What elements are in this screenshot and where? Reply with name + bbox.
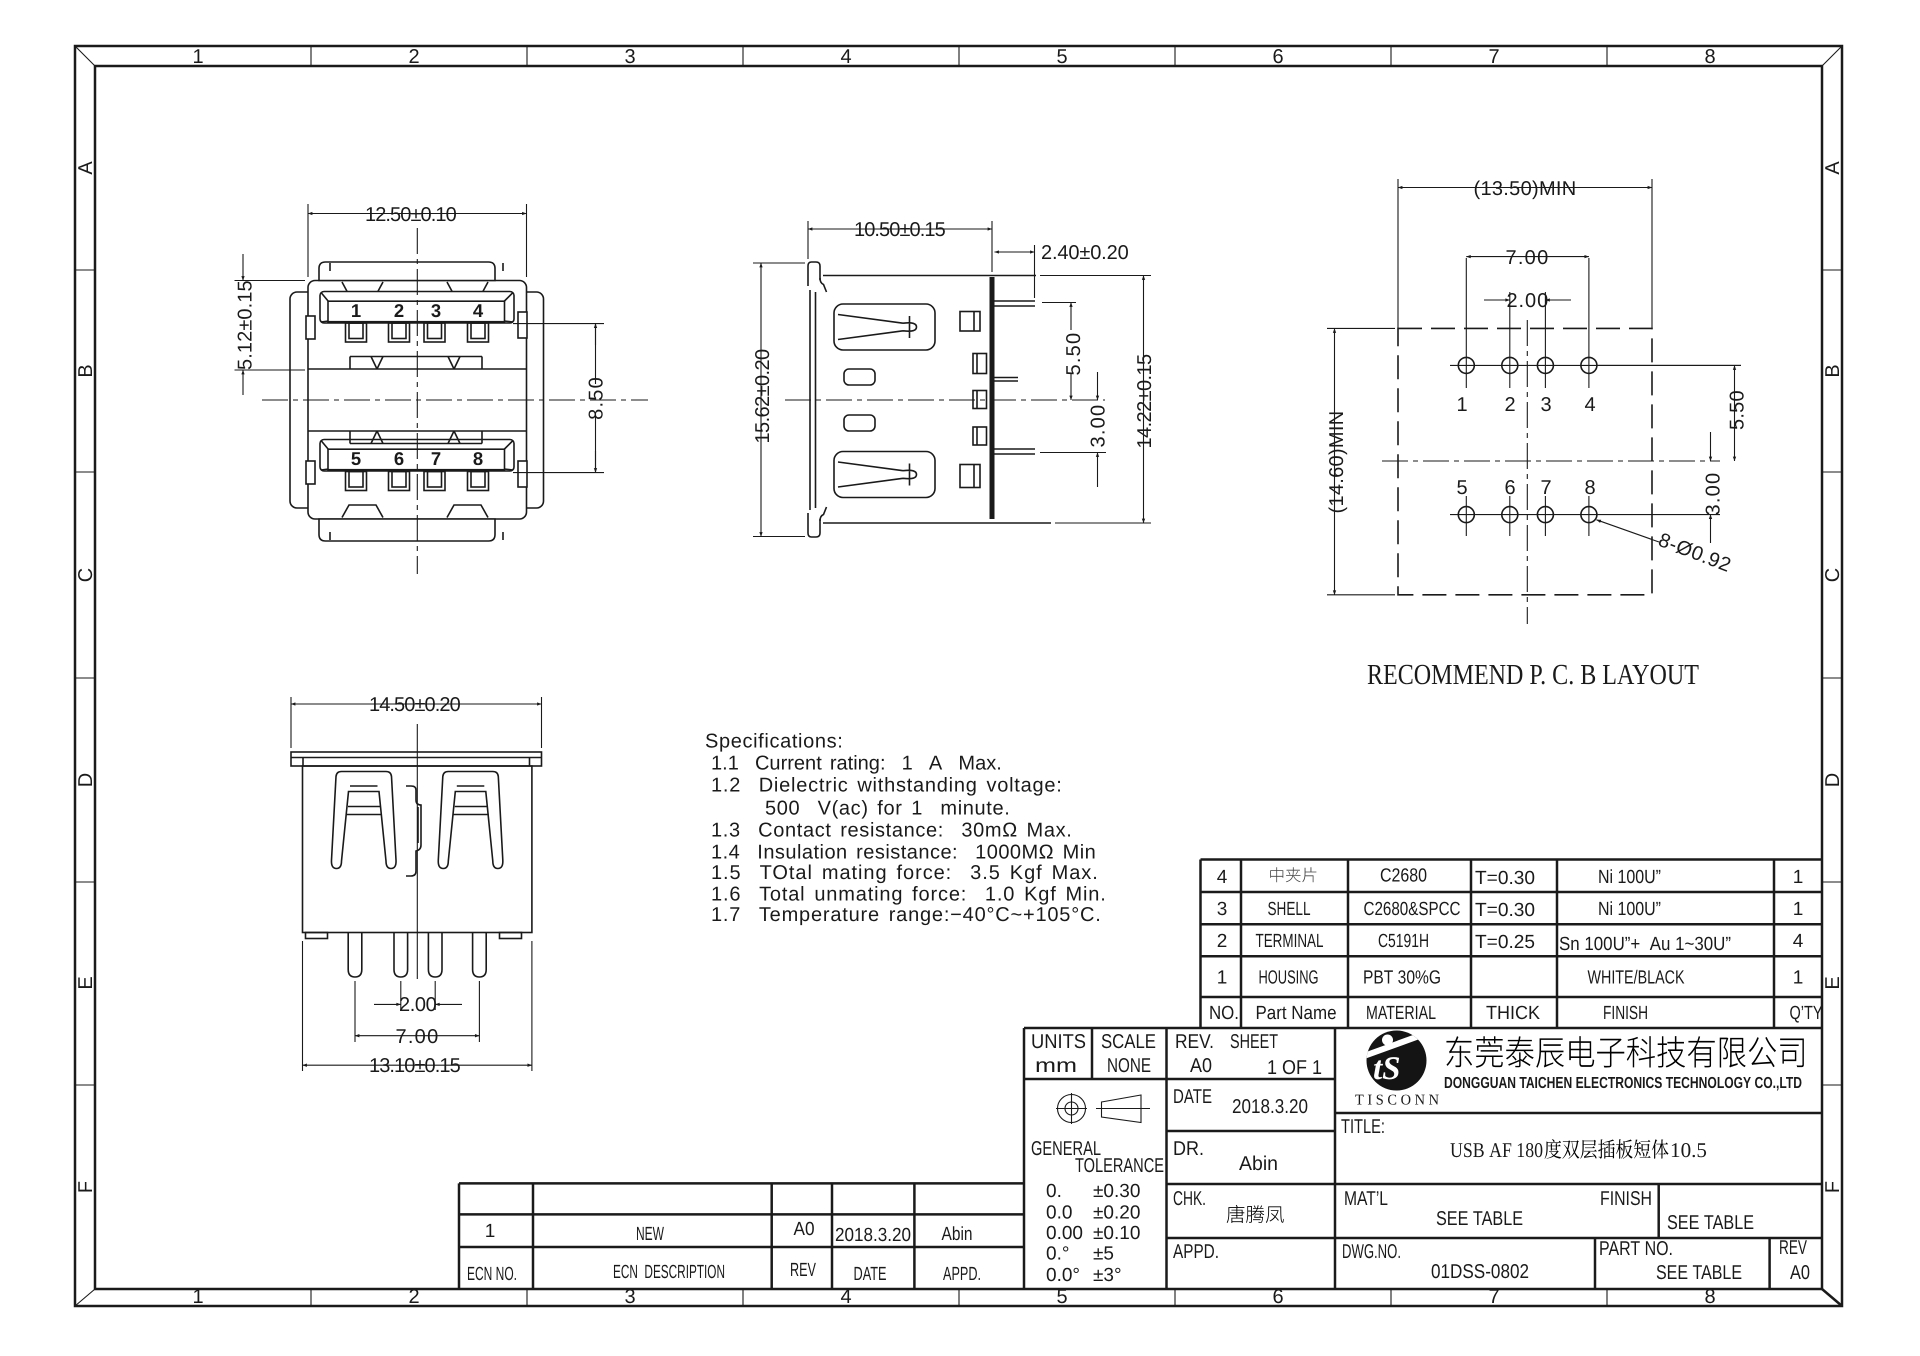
svg-text:14.22±0.15: 14.22±0.15: [1134, 354, 1156, 449]
svg-text:6: 6: [394, 448, 404, 469]
svg-text:3.00: 3.00: [1703, 473, 1725, 516]
svg-text:C: C: [75, 568, 97, 582]
svg-text:A0: A0: [794, 1219, 815, 1240]
svg-text:MAT’L: MAT’L: [1344, 1188, 1388, 1210]
svg-text:UNITS: UNITS: [1031, 1031, 1086, 1053]
PCB mount face thick bar: [990, 277, 995, 519]
svg-text:2: 2: [1217, 931, 1228, 952]
middle pin stub: [995, 378, 1019, 382]
svg-text:PBT 30%G: PBT 30%G: [1363, 968, 1441, 989]
dim 7.00: [355, 981, 479, 1048]
svg-text:7.00: 7.00: [1506, 247, 1549, 269]
svg-text:5.50: 5.50: [1063, 333, 1085, 376]
svg-text:B: B: [75, 364, 97, 377]
shell latch tabs left/right: [306, 316, 315, 339]
svg-text:THICK: THICK: [1486, 1003, 1540, 1024]
top-left lid tab: [808, 262, 820, 286]
svg-text:FINISH: FINISH: [1603, 1003, 1648, 1024]
lower tongue bar pins 5-8: [320, 440, 514, 472]
dim 2.00: [374, 981, 462, 1016]
svg-text:1: 1: [1456, 394, 1467, 416]
svg-text:REV.: REV.: [1175, 1031, 1214, 1053]
general tolerance block: [1031, 1138, 1164, 1177]
svg-text:REV: REV: [790, 1260, 816, 1281]
svg-text:DONGGUAN TAICHEN ELECTRONICS T: DONGGUAN TAICHEN ELECTRONICS TECHNOLOGY …: [1444, 1075, 1802, 1092]
svg-text:2: 2: [394, 300, 404, 321]
svg-text:0.: 0.: [1046, 1181, 1062, 1202]
svg-text:4: 4: [1217, 867, 1228, 888]
mounting feet: [306, 933, 328, 939]
svg-text:C: C: [1822, 568, 1844, 582]
bottom-left lid tab: [808, 513, 820, 537]
dim 3.00: [1703, 432, 1725, 543]
svg-text:Abin: Abin: [1239, 1153, 1278, 1175]
svg-text:D: D: [75, 773, 97, 787]
center axis: [416, 724, 418, 979]
body: [303, 766, 532, 933]
PCB outline dashed rect: [1398, 328, 1652, 594]
housing outline behind shell: [290, 292, 544, 508]
svg-text:tS: tS: [1373, 1051, 1401, 1087]
svg-text:USB AF 180: USB AF 180: [1450, 1138, 1543, 1162]
svg-text:Part Name: Part Name: [1256, 1003, 1337, 1024]
svg-text:C2680&SPCC: C2680&SPCC: [1364, 899, 1461, 920]
hole circles row2: [1458, 507, 1474, 523]
dim 13.10±0.15: [303, 941, 532, 1077]
svg-text:A: A: [75, 161, 97, 175]
svg-text:12.50±0.10: 12.50±0.10: [365, 204, 457, 226]
svg-text:3: 3: [1540, 394, 1551, 416]
svg-text:DATE: DATE: [1173, 1086, 1212, 1108]
svg-text:10.50±0.15: 10.50±0.15: [854, 219, 946, 241]
svg-text:3.00: 3.00: [1088, 405, 1110, 448]
svg-text:1: 1: [192, 1286, 203, 1308]
svg-text:2018.3.20: 2018.3.20: [835, 1225, 911, 1246]
svg-text:7: 7: [1488, 46, 1499, 68]
svg-text:FINISH: FINISH: [1600, 1188, 1652, 1210]
svg-text:1.3 Contact resistance: 30mΩ: 1.3 Contact resistance: 30mΩ Max.: [711, 820, 1072, 842]
svg-text:DR.: DR.: [1173, 1138, 1204, 1160]
dim (13.50)MIN: [1398, 178, 1652, 328]
svg-text:T=0.30: T=0.30: [1475, 868, 1535, 889]
body left double wall: [809, 290, 811, 510]
ECN table: [459, 1183, 1024, 1289]
contact pads under lower bar: [346, 472, 489, 491]
svg-text:7.00: 7.00: [396, 1026, 439, 1048]
svg-text:RECOMMEND P. C. B LAYOUT: RECOMMEND P. C. B LAYOUT: [1367, 659, 1699, 691]
svg-text:5: 5: [1056, 1286, 1067, 1308]
upper rib strip: [350, 357, 482, 370]
svg-text:Q’TY: Q’TY: [1790, 1003, 1823, 1024]
svg-text:APPD.: APPD.: [1173, 1241, 1219, 1263]
svg-text:CHK.: CHK.: [1173, 1188, 1206, 1210]
dim 15.62±0.20: [752, 263, 805, 537]
checker name CJK: [1227, 1205, 1284, 1223]
specifications text: [705, 731, 1106, 927]
pin vertical axes row2: [1465, 496, 1467, 536]
svg-text:5: 5: [1056, 46, 1067, 68]
housing windows: [844, 369, 875, 385]
row2 axis line: [1450, 514, 1720, 516]
BOM part name CJK: [1270, 867, 1316, 882]
dim 10.50±0.15: [808, 219, 992, 272]
hole circles row1: [1458, 357, 1474, 373]
svg-text:7: 7: [1488, 1286, 1499, 1308]
pin numbers 1-4: [351, 300, 484, 469]
svg-text:6: 6: [1272, 46, 1283, 68]
dim 7.00: [1466, 247, 1589, 269]
svg-text:Specifications:: Specifications:: [705, 731, 843, 753]
svg-text:8.50: 8.50: [586, 377, 608, 420]
svg-text:1: 1: [485, 1221, 496, 1242]
svg-text:B: B: [1822, 364, 1844, 377]
bottom solder pin: [995, 449, 1036, 454]
dim 8.50: [513, 324, 608, 473]
svg-text:0.0°: 0.0°: [1046, 1265, 1080, 1286]
vertical centerline: [1526, 320, 1528, 624]
top spring clip: [834, 304, 935, 350]
svg-text:F: F: [75, 1181, 97, 1193]
svg-text:Ni 100U”: Ni 100U”: [1598, 899, 1661, 920]
title block: [459, 867, 1822, 1289]
svg-text:APPD.: APPD.: [943, 1264, 981, 1285]
svg-text:3: 3: [1217, 899, 1228, 920]
pad numbers: [1456, 394, 1595, 499]
svg-text:1.6 Total unmating force: 1.: 1.6 Total unmating force: 1.0 Kgf Min.: [711, 884, 1106, 906]
svg-text:5.12±0.15: 5.12±0.15: [235, 280, 257, 370]
svg-text:C2680: C2680: [1380, 866, 1427, 887]
svg-text:NONE: NONE: [1107, 1055, 1151, 1077]
front view of dual USB-A receptacle: [235, 204, 649, 574]
svg-text:2.00: 2.00: [399, 994, 437, 1016]
svg-text:1: 1: [1793, 968, 1804, 989]
svg-text:PART NO.: PART NO.: [1599, 1238, 1673, 1260]
mid body separation lines: [308, 368, 527, 370]
svg-text:MATERIAL: MATERIAL: [1366, 1003, 1436, 1024]
svg-text:15.62±0.20: 15.62±0.20: [752, 349, 774, 444]
svg-text:ECN NO.: ECN NO.: [467, 1264, 517, 1285]
dim 14.50±0.20: [291, 694, 542, 748]
svg-text:±0.10: ±0.10: [1093, 1223, 1140, 1244]
svg-text:±3°: ±3°: [1093, 1265, 1122, 1286]
svg-text:3: 3: [431, 300, 441, 321]
svg-text:A0: A0: [1790, 1262, 1810, 1284]
third angle projection symbols: [1056, 1093, 1150, 1124]
dim 5.50: [1597, 365, 1749, 461]
leader 8-Ø0.92: [1597, 520, 1735, 577]
svg-text:TOLERANCE: TOLERANCE: [1075, 1155, 1164, 1177]
svg-text:T=0.25: T=0.25: [1475, 932, 1535, 953]
contact pads under upper bar: [346, 323, 489, 342]
svg-text:5: 5: [1456, 477, 1467, 499]
svg-text:1: 1: [1793, 899, 1804, 920]
dim 5.50: [1042, 303, 1085, 401]
svg-text:1: 1: [192, 46, 203, 68]
svg-text:2: 2: [1504, 394, 1515, 416]
dim 14.22±0.15: [1040, 276, 1156, 524]
svg-text:SHEET: SHEET: [1230, 1031, 1278, 1053]
svg-text:1: 1: [1793, 867, 1804, 888]
side view of connector: [752, 219, 1156, 537]
svg-text:8: 8: [1584, 477, 1595, 499]
shell outer: [308, 281, 527, 520]
left spring clip rear: [331, 772, 396, 869]
svg-text:6: 6: [1504, 477, 1515, 499]
svg-text:1.7 Temperature range:−40°C~+: 1.7 Temperature range:−40°C~+105°C.: [711, 904, 1101, 926]
zone letters: [75, 161, 1844, 1193]
svg-text:Abin: Abin: [942, 1224, 973, 1245]
top lid: [319, 262, 495, 281]
solder pins: [348, 933, 362, 978]
svg-text:DWG.NO.: DWG.NO.: [1342, 1241, 1401, 1263]
svg-text:TITLE:: TITLE:: [1341, 1116, 1385, 1138]
svg-text:SEE TABLE: SEE TABLE: [1667, 1212, 1754, 1234]
svg-text:E: E: [1822, 976, 1844, 989]
svg-text:WHITE/BLACK: WHITE/BLACK: [1588, 968, 1685, 989]
terminal cross sections: [960, 312, 987, 488]
zone numbers: [192, 46, 1715, 1308]
center ridge: [406, 786, 421, 876]
svg-text:1: 1: [1217, 968, 1228, 989]
svg-text:2.00: 2.00: [1507, 290, 1549, 312]
svg-text:4: 4: [840, 46, 851, 68]
svg-text:T=0.30: T=0.30: [1475, 900, 1535, 921]
svg-text:Ni 100U”: Ni 100U”: [1598, 867, 1661, 888]
svg-text:4: 4: [1584, 394, 1595, 416]
bottom edge keying notches: [342, 505, 383, 518]
svg-text:5: 5: [351, 448, 361, 469]
svg-text:0.00: 0.00: [1046, 1223, 1083, 1244]
svg-text:TERMINAL: TERMINAL: [1256, 931, 1324, 952]
svg-text:4: 4: [840, 1286, 851, 1308]
svg-text:2018.3.20: 2018.3.20: [1232, 1096, 1308, 1118]
svg-text:mm: mm: [1035, 1055, 1077, 1077]
horizontal centerline: [262, 399, 648, 401]
svg-text:Sn 100U”+ Au 1~30U”: Sn 100U”+ Au 1~30U”: [1559, 934, 1731, 955]
svg-text:A: A: [1822, 161, 1844, 175]
dim 5.12±0.15: [235, 254, 306, 395]
dim 3.00: [1040, 372, 1110, 487]
title block labels: [1031, 1031, 1810, 1284]
horizontal centerline: [1382, 460, 1720, 462]
svg-text:±5: ±5: [1093, 1244, 1114, 1265]
svg-text:ECN DESCRIPTION: ECN DESCRIPTION: [613, 1262, 725, 1283]
svg-text:SCALE: SCALE: [1101, 1031, 1156, 1053]
svg-text:8: 8: [1704, 1286, 1715, 1308]
svg-text:1: 1: [351, 300, 361, 321]
svg-text:3: 3: [624, 1286, 635, 1308]
top edge keying notches: [342, 282, 383, 295]
svg-text:01DSS-0802: 01DSS-0802: [1431, 1261, 1529, 1283]
svg-text:SEE TABLE: SEE TABLE: [1436, 1208, 1523, 1230]
svg-text:4: 4: [1793, 931, 1804, 952]
BOM table: [1201, 860, 1823, 1029]
pin vertical axes row1: [1465, 258, 1467, 388]
svg-text:4: 4: [473, 300, 484, 321]
svg-text:1.2 Dielectric withstanding v: 1.2 Dielectric withstanding voltage:: [711, 774, 1062, 796]
svg-text:3: 3: [624, 46, 635, 68]
svg-text:A0: A0: [1190, 1055, 1212, 1077]
svg-text:1.5 TOtal mating force: 3.5: 1.5 TOtal mating force: 3.5 Kgf Max.: [711, 862, 1098, 884]
svg-text:REV: REV: [1779, 1237, 1807, 1259]
body top edge: [823, 275, 1036, 277]
top solder pin: [995, 301, 1036, 306]
svg-text:6: 6: [1272, 1286, 1283, 1308]
dim 2.00: [1484, 290, 1571, 312]
svg-text:500 V(ac) for 1 minute.: 500 V(ac) for 1 minute.: [765, 798, 1010, 820]
top plate: [291, 752, 542, 766]
row1 axis line: [1450, 364, 1741, 366]
body bottom edge: [823, 522, 1051, 524]
svg-text:DATE: DATE: [854, 1264, 887, 1285]
svg-text:10.5: 10.5: [1670, 1138, 1707, 1162]
svg-text:2: 2: [408, 1286, 419, 1308]
svg-text:1.4 Insulation resistance: 1: 1.4 Insulation resistance: 1000MΩ Min: [711, 842, 1096, 864]
svg-text:±0.20: ±0.20: [1093, 1203, 1140, 1224]
svg-text:8: 8: [473, 448, 483, 469]
company name CJK: [1446, 1036, 1803, 1068]
dim 12.50±0.10: [308, 204, 527, 277]
recommended PCB layout view: [1326, 178, 1749, 691]
lower rib strip: [350, 431, 482, 444]
svg-text:D: D: [1822, 773, 1844, 787]
right spring clip rear: [438, 772, 503, 869]
svg-text:0.°: 0.°: [1046, 1244, 1069, 1265]
svg-text:E: E: [75, 976, 97, 989]
svg-text:13.10±0.15: 13.10±0.15: [369, 1055, 461, 1077]
svg-text:1.1 Current rating: 1 A Ma: 1.1 Current rating: 1 A Max.: [711, 753, 1002, 775]
svg-text:NO.: NO.: [1209, 1003, 1239, 1024]
svg-text:NEW: NEW: [636, 1224, 664, 1245]
svg-text:SHELL: SHELL: [1268, 899, 1311, 920]
corner diagonals: [75, 46, 95, 66]
svg-text:7: 7: [1540, 477, 1551, 499]
svg-text:SEE TABLE: SEE TABLE: [1656, 1262, 1742, 1284]
dim 2.40±0.20: [995, 242, 1130, 298]
svg-text:0.0: 0.0: [1046, 1203, 1072, 1224]
dim (14.60)MIN: [1326, 328, 1395, 594]
svg-text:14.50±0.20: 14.50±0.20: [369, 694, 461, 716]
company logo: [1364, 1031, 1430, 1091]
svg-text:C5191H: C5191H: [1378, 931, 1429, 952]
svg-text:(14.60)MIN: (14.60)MIN: [1326, 411, 1348, 514]
svg-text:8: 8: [1704, 46, 1715, 68]
svg-text:2: 2: [408, 46, 419, 68]
svg-text:T I S C O N N: T I S C O N N: [1355, 1093, 1439, 1109]
svg-text:5.50: 5.50: [1727, 390, 1749, 430]
svg-text:F: F: [1822, 1181, 1844, 1193]
bottom spring clip: [834, 452, 935, 498]
upper tongue bar pins 1-4: [320, 292, 514, 324]
svg-text:(13.50)MIN: (13.50)MIN: [1474, 178, 1577, 200]
centerline: [785, 399, 1105, 401]
svg-text:1 OF 1: 1 OF 1: [1267, 1057, 1322, 1079]
vertical centerline: [416, 228, 418, 574]
svg-text:±0.30: ±0.30: [1093, 1181, 1140, 1202]
svg-text:7: 7: [431, 448, 441, 469]
bottom lid: [319, 519, 495, 541]
rear view of connector: [291, 694, 542, 1077]
svg-text:HOUSING: HOUSING: [1259, 968, 1319, 989]
svg-text:2.40±0.20: 2.40±0.20: [1041, 242, 1129, 264]
